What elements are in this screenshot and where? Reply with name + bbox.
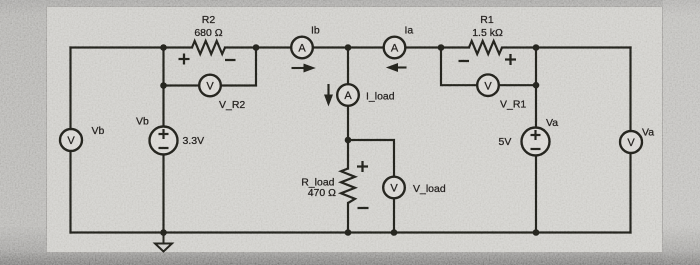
- voltmeter V_R2: [199, 75, 221, 97]
- polarity - (R_load bottom): [358, 207, 369, 209]
- wire: R_load branch lower: [347, 203, 349, 233]
- wire: top rail left segment: [71, 46, 193, 48]
- node: ground junction on bottom rail: [160, 229, 167, 236]
- arrow Ia direction (left): [386, 63, 407, 72]
- wire: left rail: [69, 48, 71, 233]
- voltmeter Vb (left rail): [60, 129, 82, 151]
- wire: right rail: [629, 48, 631, 233]
- voltmeter V_R1: [477, 74, 499, 96]
- voltmeter Va (right rail): [620, 131, 642, 153]
- node: R2 left junction: [160, 44, 167, 51]
- polarity - (R1 left): [459, 60, 470, 62]
- wire: top rail middle segment (R2 right to R1 left): [225, 46, 469, 48]
- ammeter Ia: [384, 37, 406, 59]
- polarity + (R1 right): [505, 54, 516, 65]
- resistor R1: [469, 41, 502, 54]
- ammeter I_load: [337, 84, 359, 106]
- wire: V_R1 sense loop: [441, 48, 536, 86]
- polarity - (R2 right): [225, 59, 236, 61]
- node: V_load bottom junction: [391, 229, 398, 236]
- ground: [155, 233, 172, 252]
- resistor R2: [192, 41, 225, 54]
- polarity + (R2 left): [179, 54, 190, 65]
- node: R2 right junction: [253, 44, 260, 51]
- node: R_load bottom junction: [345, 229, 352, 236]
- node: Va branch bottom junction: [533, 229, 540, 236]
- wire: I_load / R_load branch upper: [347, 48, 349, 169]
- wire: Va source branch: [535, 48, 537, 233]
- node: V_R1 tap on Va branch: [533, 82, 540, 89]
- voltmeter V_load: [383, 177, 405, 199]
- arrow I_load direction (down): [324, 84, 333, 107]
- node: V_load tap: [345, 137, 352, 144]
- ammeter Ib: [291, 37, 313, 59]
- node: R1 left junction: [438, 44, 445, 51]
- wire: V_R2 sense loop: [164, 48, 257, 86]
- node: V_R2 tap on Vb branch: [160, 82, 167, 89]
- wire: Vb source branch: [162, 48, 164, 233]
- wire: top rail right segment: [502, 46, 631, 48]
- node: I_load tap on top rail: [345, 44, 352, 51]
- arrow Ib direction (right): [292, 64, 316, 73]
- node: R1 right junction: [533, 44, 540, 51]
- wire: V_load branch: [348, 140, 394, 233]
- source Vb 3.3V: [150, 127, 178, 155]
- resistor R_load: [341, 169, 355, 204]
- source Va 5V: [522, 128, 550, 156]
- polarity + (R_load top): [357, 161, 368, 172]
- wire: bottom rail: [71, 231, 631, 233]
